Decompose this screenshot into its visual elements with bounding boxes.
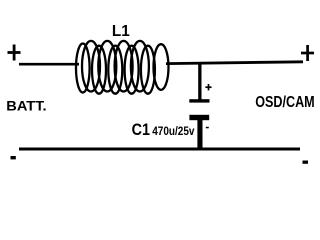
minus terminal left (11, 156, 16, 159)
wire top-left rail (19, 63, 79, 66)
wire capacitor bottom lead (197, 119, 202, 150)
svg-text:470u/25v: 470u/25v (152, 124, 194, 138)
svg-text:OSD/CAM: OSD/CAM (255, 94, 315, 111)
capacitor minus polarity mark (206, 127, 209, 129)
svg-text:C1: C1 (132, 121, 150, 139)
inductor L1 coil (76, 41, 169, 94)
plus terminal left (8, 45, 21, 61)
capacitor plus polarity mark (205, 84, 211, 90)
svg-text:BATT.: BATT. (6, 99, 46, 114)
wire top-right rail (166, 62, 303, 64)
wire capacitor top lead (198, 63, 201, 100)
capacitor C1 bottom plate (189, 115, 209, 120)
capacitor C1 top plate (189, 99, 209, 102)
minus terminal right (303, 161, 309, 164)
svg-text:L1: L1 (112, 23, 130, 40)
wire bottom rail (19, 148, 300, 151)
plus terminal right (301, 45, 314, 61)
